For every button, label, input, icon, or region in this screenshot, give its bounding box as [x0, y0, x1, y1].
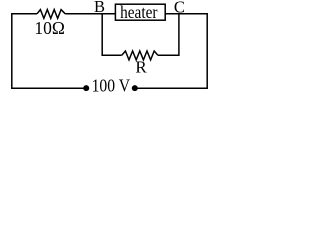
- heater box: [115, 4, 165, 20]
- wire: branch from node B down to resistor R: [102, 14, 122, 55]
- svg-text:heater: heater: [120, 2, 157, 22]
- wire: from resistor through node B to heater box: [65, 13, 115, 15]
- wire: from resistor R up to node C: [158, 14, 179, 55]
- svg-text:10Ω: 10Ω: [34, 18, 65, 38]
- terminal dot right: [132, 85, 138, 91]
- svg-text:100 V: 100 V: [92, 76, 131, 96]
- wire: from 10Ω resistor around top-left corner, down left side, along bottom to left supply terminal: [12, 14, 86, 88]
- resistor R (zigzag): [122, 51, 158, 60]
- terminal dot left: [83, 85, 89, 91]
- resistor R1 10Ω (zigzag): [37, 10, 65, 19]
- wire: from heater through node C, around top-right corner, down right side, along bottom to right supply terminal: [135, 14, 207, 88]
- svg-text:R: R: [135, 58, 147, 77]
- svg-text:B: B: [94, 0, 105, 16]
